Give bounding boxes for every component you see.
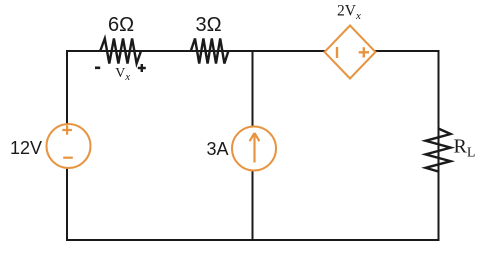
svg-text:3Ω: 3Ω bbox=[195, 14, 221, 36]
resistor R1 6 ohm bbox=[100, 14, 141, 64]
wire middle vertical lower bbox=[252, 170, 254, 241]
svg-text:6Ω: 6Ω bbox=[108, 14, 134, 36]
wire bottom horizontal bbox=[66, 239, 439, 241]
resistor R2 3 ohm bbox=[191, 14, 229, 64]
svg-text:3A: 3A bbox=[207, 139, 229, 159]
dependent source U1 2Vx (diamond) bbox=[325, 26, 376, 79]
node Vx polarity plus bbox=[138, 64, 146, 72]
resistor RL bbox=[426, 129, 476, 172]
current source I1 3A bbox=[232, 127, 276, 171]
svg-text:2Vx: 2Vx bbox=[337, 3, 361, 23]
wire middle vertical upper bbox=[252, 50, 254, 127]
voltage source V1 12V bbox=[47, 124, 91, 168]
wire right vertical bbox=[438, 50, 440, 241]
node Vx polarity minus bbox=[95, 67, 100, 70]
svg-text:RL: RL bbox=[454, 136, 476, 161]
wire left vertical upper bbox=[66, 50, 68, 125]
wire top-left horizontal (node between V1 and R1) bbox=[66, 50, 325, 52]
wire left vertical lower bbox=[66, 167, 68, 240]
wire top-right horizontal (diamond to right branch) bbox=[375, 50, 439, 52]
svg-text:Vx: Vx bbox=[115, 66, 130, 83]
svg-text:12V: 12V bbox=[10, 138, 42, 158]
